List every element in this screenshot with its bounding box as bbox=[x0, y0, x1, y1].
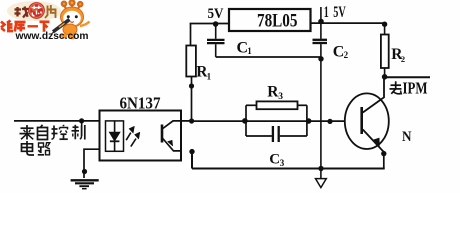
LED inner box bbox=[106, 121, 124, 151]
logo mascot eyes bbox=[67, 15, 70, 18]
node ground stub junction bbox=[82, 169, 87, 174]
node R2 bottom bbox=[382, 74, 388, 80]
node opto output bbox=[189, 118, 194, 123]
wire cathode pin to ground bbox=[84, 149, 100, 178]
logo watermark dzsc bbox=[1, 0, 90, 42]
wire C1 bottom to ground line bbox=[216, 56, 321, 58]
svg-text:C: C bbox=[269, 152, 280, 168]
logo mascot head bbox=[61, 7, 84, 27]
resistor R1 bbox=[186, 46, 196, 77]
logo char zhao (find) dark bbox=[15, 7, 29, 18]
wire stub below input junction bbox=[81, 121, 83, 136]
logo mascot face bbox=[63, 11, 81, 26]
label qu (Chinese: to) of 去IPM bbox=[390, 81, 402, 94]
wire R1 bottom branch bbox=[191, 77, 193, 122]
svg-text:78L05: 78L05 bbox=[257, 11, 298, 32]
label dianlu (Chinese: circuit) bbox=[22, 141, 50, 155]
wire to IPM bbox=[385, 76, 430, 78]
svg-text:2: 2 bbox=[344, 50, 349, 60]
node 15V bbox=[318, 19, 324, 25]
logo mascot antennas bbox=[62, 0, 83, 9]
svg-text:www.dzsc.com: www.dzsc.com bbox=[14, 31, 88, 42]
svg-text:2: 2 bbox=[401, 54, 405, 64]
wire opto output pin to node bbox=[181, 120, 192, 122]
char zi bbox=[41, 125, 43, 128]
svg-text:IPM: IPM bbox=[403, 79, 428, 98]
node emitter bbox=[381, 151, 386, 156]
wire 78L05 output to R2 bbox=[311, 22, 385, 24]
svg-text:1: 1 bbox=[247, 46, 252, 56]
logo mascot legs bbox=[61, 34, 67, 39]
node base wire dot bbox=[327, 119, 332, 124]
logo char pian (piece) tan bbox=[45, 5, 56, 18]
svg-text:6N137: 6N137 bbox=[120, 94, 161, 113]
char xia bbox=[40, 20, 50, 23]
transistor Q2 N bbox=[345, 77, 389, 152]
char zhi bbox=[73, 126, 79, 128]
LED D1 bbox=[110, 121, 120, 151]
capacitor C3 bbox=[272, 126, 274, 142]
char dian bbox=[22, 144, 33, 152]
regulator U2 78L05 box bbox=[229, 9, 311, 31]
logo mascot pen bbox=[53, 20, 70, 32]
char wei bbox=[1, 22, 5, 32]
svg-text:N: N bbox=[402, 129, 412, 145]
wire 15V stub bbox=[320, 7, 322, 23]
logo text weikuyixia (red) bbox=[1, 21, 50, 32]
capacitor C2 bbox=[313, 23, 328, 168]
svg-text:1: 1 bbox=[207, 72, 212, 82]
char lu bbox=[39, 143, 44, 147]
node R3 left bbox=[242, 118, 248, 124]
char yi bbox=[28, 25, 39, 27]
node R2 top bbox=[382, 22, 387, 27]
label laizikongzhi (Chinese: from control) bbox=[20, 125, 85, 140]
light arrows bbox=[126, 126, 140, 146]
ground GND1 (earth bars) bbox=[71, 180, 99, 188]
node input junction bbox=[79, 118, 84, 123]
wire emitter down bbox=[383, 154, 385, 169]
svg-text:5V: 5V bbox=[333, 4, 346, 21]
svg-text:5V: 5V bbox=[208, 6, 224, 22]
char kong bbox=[53, 126, 55, 137]
node opto emitter pin bbox=[189, 149, 194, 154]
wire base rail bbox=[192, 120, 345, 122]
logo mascot arm right bbox=[80, 22, 90, 27]
wire input from control circuit bbox=[14, 120, 100, 122]
ground GND2 (open arrow) bbox=[320, 168, 322, 178]
node C1/C2 ground join bbox=[318, 56, 323, 61]
phototransistor Q1 bbox=[162, 121, 181, 151]
capacitor C1 bbox=[207, 24, 225, 57]
logo cream halo bbox=[7, 1, 61, 21]
node R3 right bbox=[306, 118, 312, 124]
node 5V bbox=[213, 21, 219, 27]
svg-text:3: 3 bbox=[278, 92, 283, 102]
wire R1 top to 5V rail bbox=[190, 24, 192, 46]
resistor R3 parallel network bbox=[246, 101, 307, 136]
op-amp U1 6N137 optocoupler box bbox=[100, 111, 182, 161]
svg-text:1: 1 bbox=[324, 4, 329, 21]
wire bottom rail bbox=[192, 152, 385, 169]
node bottom rail join bbox=[318, 166, 323, 171]
svg-text:3: 3 bbox=[280, 158, 285, 168]
logo red badge circle with xin bbox=[28, 2, 45, 19]
wire 5V rail bbox=[190, 23, 229, 25]
resistor R2 bbox=[384, 23, 386, 35]
char lai bbox=[21, 127, 34, 129]
logo mascot body bbox=[63, 24, 77, 35]
char ku bbox=[15, 21, 26, 24]
node below R1 bbox=[189, 83, 194, 88]
